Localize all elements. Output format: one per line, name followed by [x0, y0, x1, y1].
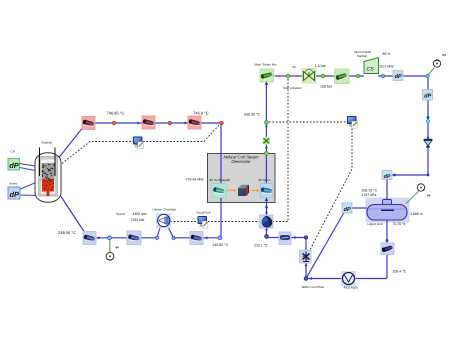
svg-text:206.78 °C: 206.78 °C [362, 189, 378, 193]
controller icon core outlet temp [133, 137, 143, 149]
svg-text:Inven: Inven [10, 181, 18, 185]
heater H2 [142, 116, 155, 129]
level gauge [417, 184, 424, 191]
HCSG water-side block [260, 184, 273, 201]
label P tiny [442, 54, 444, 56]
heater H1 [82, 117, 95, 130]
pump rim dots [265, 212, 267, 214]
node feed corner [304, 277, 308, 281]
wire cold leg to reactor bottom [61, 197, 84, 232]
svg-text:Generator: Generator [231, 159, 251, 164]
wire bottom feed run [306, 278, 387, 280]
orifice block [279, 232, 291, 245]
wire green gauge line steam [428, 68, 435, 76]
svg-text:dP: dP [10, 190, 20, 199]
svg-text:Speed: Speed [116, 212, 125, 216]
orange arrow 2 [251, 189, 258, 191]
wire green pressure tap bottom [109, 238, 111, 253]
node hot 3 [220, 121, 224, 125]
arrow up into feed valve [305, 263, 308, 266]
control rods [40, 148, 56, 177]
svg-text:746.85 °C: 746.85 °C [107, 111, 125, 116]
arrow into cold block3 [205, 236, 208, 239]
arrow toward feed node [309, 277, 312, 280]
HCSG helium-side block [212, 184, 226, 198]
svg-text:dP: dP [424, 93, 431, 100]
wire green gauge line tank [406, 191, 419, 204]
wire main steam header [275, 75, 429, 77]
node before CS [356, 74, 359, 77]
node hot 1 [112, 121, 116, 125]
svg-text:CR: CR [11, 150, 16, 154]
svg-text:-778.48 MW: -778.48 MW [185, 177, 205, 181]
steam header/sink triangle [424, 139, 433, 148]
svg-text:Main Steam line: Main Steam line [255, 63, 278, 67]
node hot 2 [168, 121, 172, 125]
svg-text:Total pressure: Total pressure [283, 86, 303, 90]
storage tank [367, 200, 407, 221]
svg-text:1787 kPa: 1787 kPa [362, 193, 377, 197]
node steam temp (660) [265, 121, 269, 125]
HCSG heat-transfer cube [237, 184, 251, 198]
svg-text:208.4 °C: 208.4 °C [393, 270, 407, 274]
level dP block [342, 203, 352, 213]
svg-text:dP: dP [384, 174, 391, 180]
controller icon steam temp to feed valve [347, 116, 357, 128]
node at return corner [427, 174, 430, 177]
wire feed to pump [267, 237, 307, 239]
svg-text:Reactor: Reactor [42, 141, 53, 145]
wire hot header [95, 122, 222, 124]
steam pipe block 2 [335, 69, 350, 84]
CS nozzle [364, 58, 379, 74]
svg-text:746.9 °C: 746.9 °C [193, 111, 209, 116]
svg-text:dP: dP [9, 161, 19, 170]
svg-text:86 %: 86 % [383, 52, 391, 56]
wire tank bottom drop [386, 220, 388, 279]
node tank bottom [386, 239, 389, 242]
arrow before block3 [185, 122, 188, 125]
gauge P bottom [106, 252, 114, 260]
wire steam riser from HCSG [265, 83, 267, 198]
wire dP CR box taps [20, 164, 36, 171]
steam control valve green [262, 137, 270, 145]
svg-text:80 tubes: 80 tubes [259, 178, 271, 182]
wire right drop [427, 76, 429, 175]
node before return dP [393, 174, 396, 177]
svg-text:70.70 %: 70.70 % [393, 222, 406, 226]
svg-text:248.06 °C: 248.06 °C [58, 230, 76, 235]
svg-text:48.0 kg/s: 48.0 kg/s [344, 285, 358, 289]
dP box CR [8, 159, 20, 171]
orange arrow 1 [227, 189, 235, 191]
svg-text:CS: CS [367, 67, 375, 73]
svg-text:210.1 °C: 210.1 °C [254, 243, 268, 247]
node above valve [304, 236, 307, 239]
cold pipe block B3 [190, 232, 203, 245]
node after valve [321, 74, 325, 78]
tank glow [366, 198, 410, 223]
small dots on riser [265, 125, 267, 127]
node top right [426, 74, 429, 77]
wire level dP to tank [351, 207, 367, 209]
svg-text:20.3 MW: 20.3 MW [380, 64, 395, 68]
wire circulator suction/discharge diagonals [157, 227, 174, 238]
label P [115, 246, 117, 248]
svg-text:150 bar: 150 bar [320, 84, 333, 88]
arrow into orifice [293, 236, 296, 239]
wire dP inventory box taps [21, 183, 36, 196]
heater H3 [188, 116, 201, 129]
throttle valve [302, 69, 316, 84]
feedwater control valve [300, 250, 312, 263]
node above header [427, 137, 429, 139]
wire reactor to heater1 (hot leg) [59, 126, 84, 158]
return dP block [382, 171, 392, 180]
reactor vessel [35, 148, 61, 203]
svg-text:RecyPush: RecyPush [197, 211, 211, 215]
HCSG enclosure box [208, 154, 276, 203]
svg-text:Helium Circulator: Helium Circulator [153, 208, 177, 212]
svg-text:dP: dP [293, 65, 297, 69]
arrow into cold block1 [97, 236, 100, 239]
dashed control line: total pressure node to circulator [171, 79, 288, 222]
node pump bottom [265, 235, 269, 239]
cyan node [426, 119, 430, 123]
dashed control line: reactor to hot-leg node [62, 125, 220, 164]
node after CS [381, 74, 384, 77]
cold pipe block B1 [83, 232, 96, 245]
svg-text:1.6 bar: 1.6 bar [315, 64, 327, 68]
cold pipe block B2 [127, 231, 141, 245]
helium circulator [156, 213, 172, 229]
svg-text:Water Feed flow: Water Feed flow [302, 285, 325, 289]
wire helium downcomer to HCSG [220, 123, 222, 238]
wire pump riser to HCSG [266, 198, 268, 237]
arrow into heater chain before block2 [138, 122, 141, 125]
wire feed valve riser [305, 238, 307, 279]
dashed control line: steam temp node to controller to feed valve [269, 122, 352, 251]
tank outlet pipe block [381, 243, 394, 255]
svg-text:4455 rpm: 4455 rpm [133, 212, 148, 216]
svg-text:dP: dP [344, 206, 351, 213]
water feed flow meter [341, 271, 356, 286]
node cold green-tap [108, 236, 112, 240]
svg-text:7192 kW: 7192 kW [131, 218, 146, 222]
Main Steam line block [260, 69, 274, 85]
controller icon RecyPush [198, 216, 208, 228]
svg-text:Liquid level: Liquid level [368, 222, 384, 226]
dP block after CS [393, 71, 403, 81]
feed pump [260, 215, 274, 228]
dP box inventory [8, 187, 20, 199]
svg-text:dP: dP [395, 73, 402, 80]
node on drop [427, 116, 430, 119]
node cold at downcomer [218, 236, 222, 240]
svg-text:fraction: fraction [357, 54, 368, 58]
node total pressure [286, 74, 290, 78]
svg-text:80 He flowpath: 80 He flowpath [210, 178, 231, 182]
label G tiny [427, 195, 429, 197]
wire return to tank [387, 175, 428, 200]
svg-text:245.85 °C: 245.85 °C [213, 243, 229, 247]
svg-text:3.886 m: 3.886 m [410, 212, 423, 216]
green node at box top [265, 151, 269, 155]
node cold right of circulator [172, 236, 175, 239]
wire level dP diagonal [306, 213, 344, 279]
node cold left of circulator [155, 236, 158, 239]
wire helium return bottom [96, 237, 220, 239]
dP block right drop [423, 90, 433, 101]
gauge P top right [433, 60, 440, 67]
svg-text:660.00 °C: 660.00 °C [244, 113, 260, 117]
